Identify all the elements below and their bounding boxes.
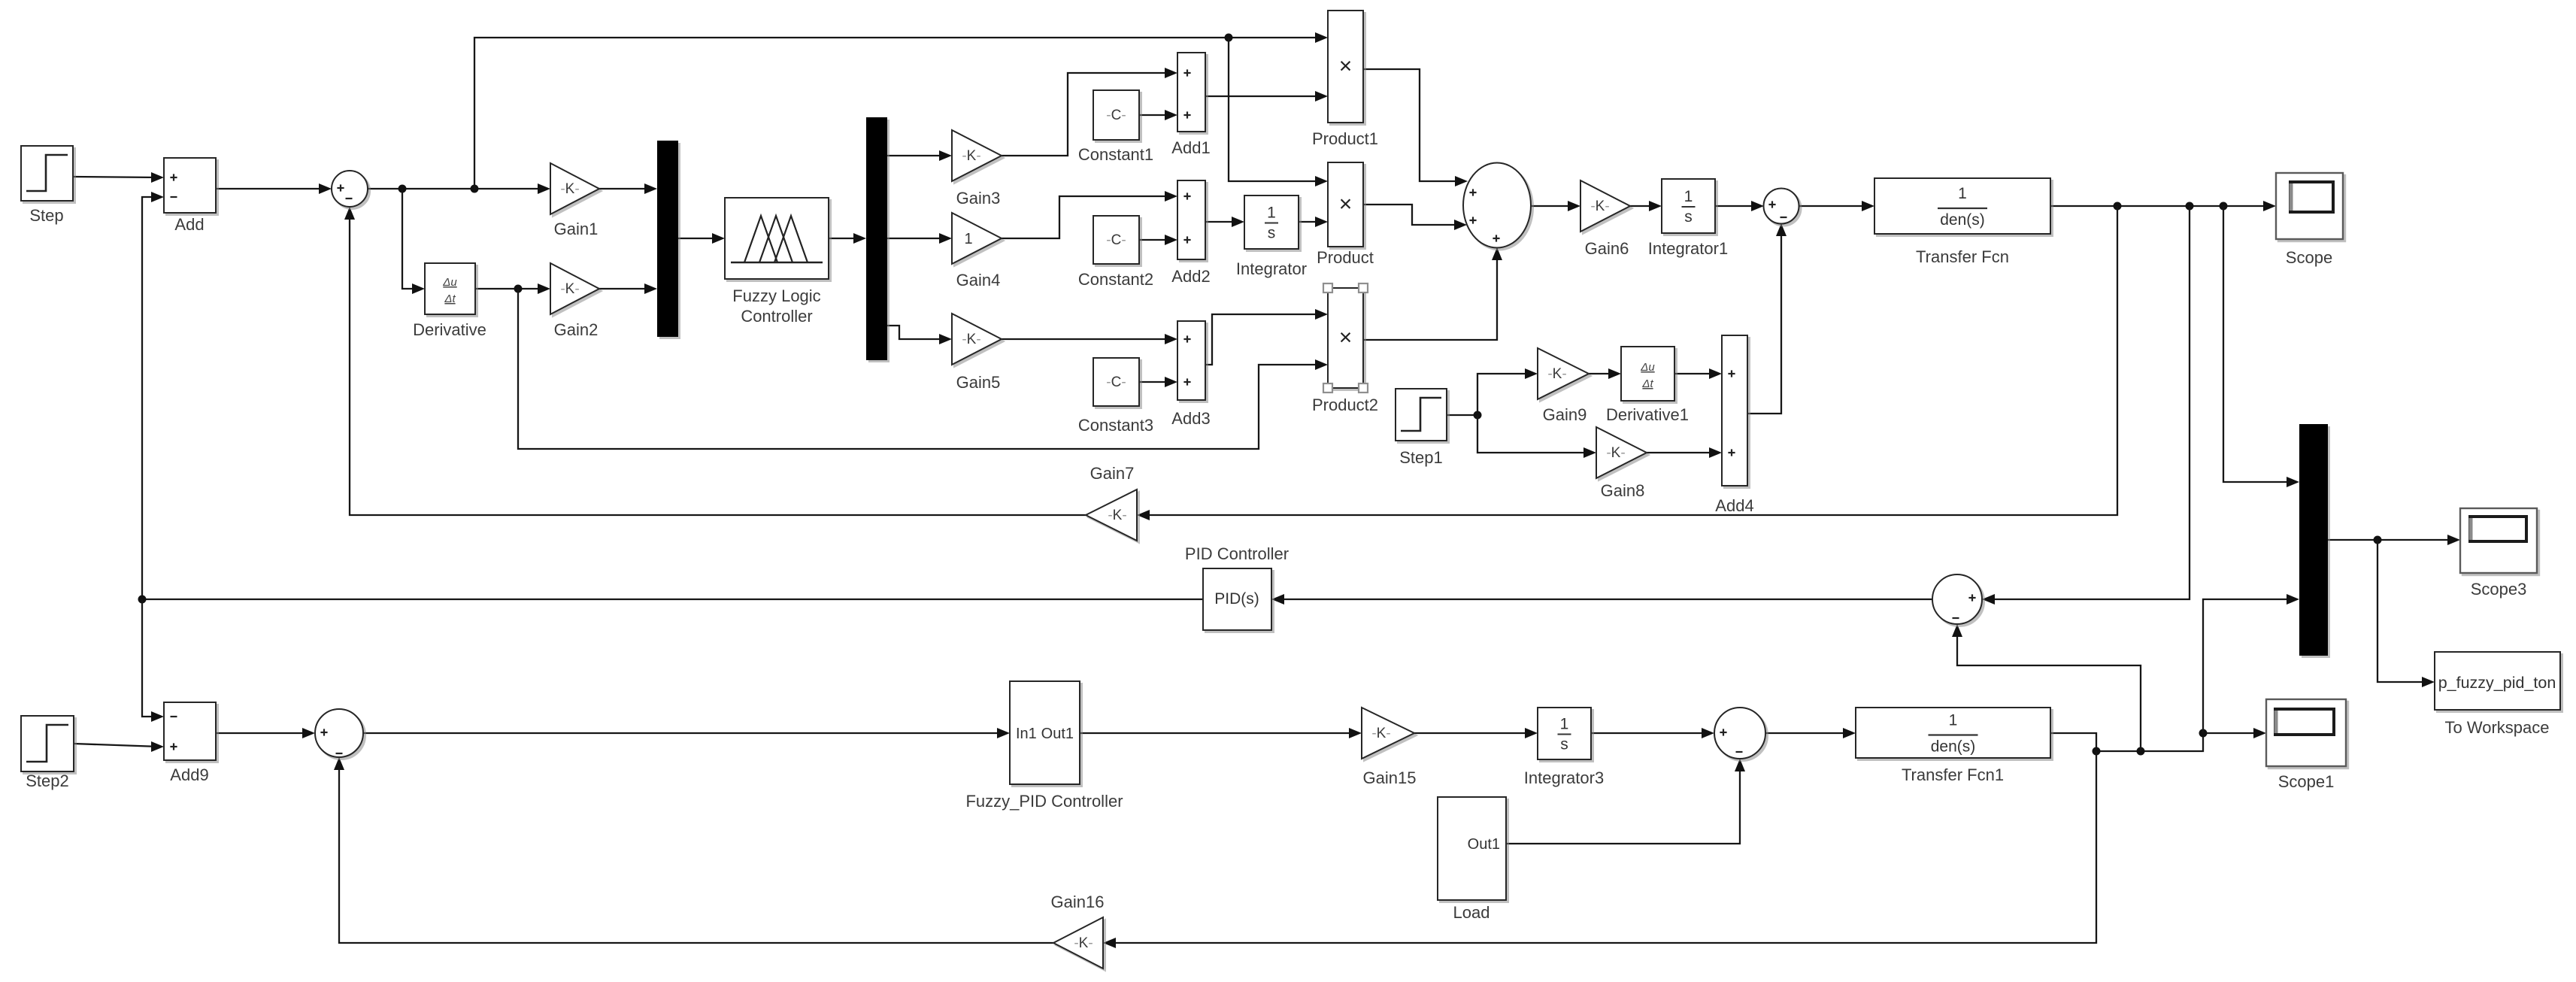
svg-text:Add4: Add4 xyxy=(1715,496,1753,515)
constant block Constant2 xyxy=(1078,216,1153,289)
integrator block Integrator xyxy=(1236,195,1307,278)
svg-text:s: s xyxy=(1560,736,1568,753)
svg-text:×: × xyxy=(1339,192,1353,217)
svg-text:Scope3: Scope3 xyxy=(2471,580,2527,599)
wire node to Product top xyxy=(1229,38,1328,186)
wire Sum5 to Transfer Fcn1 xyxy=(1765,728,1856,738)
svg-text:1: 1 xyxy=(1560,716,1569,733)
svg-text:-C-: -C- xyxy=(1106,374,1126,390)
fuzzy logic controller block xyxy=(725,198,829,326)
wire Sum1 to Gain1 xyxy=(368,183,550,194)
wire Integrator1 to Sum2 xyxy=(1715,201,1764,211)
svg-text:PID(s): PID(s) xyxy=(1214,590,1259,608)
product block Product1 xyxy=(1312,11,1378,148)
wire Derivative to Gain2 xyxy=(475,283,550,294)
svg-text:PID Controller: PID Controller xyxy=(1185,544,1289,563)
wire Constant2 to Add2 xyxy=(1139,235,1177,245)
wire Step to Add xyxy=(73,172,164,183)
scope block Scope1 xyxy=(2266,699,2346,791)
product block Product xyxy=(1317,162,1374,267)
wire Sum4 to Fuzzy_PID Controller xyxy=(363,728,1010,738)
svg-text:Scope: Scope xyxy=(2286,248,2332,267)
svg-text:Scope1: Scope1 xyxy=(2278,772,2335,791)
scope block Scope3 xyxy=(2460,508,2537,599)
subsystem block Load xyxy=(1438,797,1506,922)
gain Gain15 xyxy=(1362,708,1416,787)
svg-text:Out1: Out1 xyxy=(1041,726,1074,742)
wire Integrator to Product xyxy=(1299,217,1328,227)
svg-text:Δt: Δt xyxy=(1641,377,1653,390)
svg-text:-K-: -K- xyxy=(560,181,579,197)
wire PID output to Add minus xyxy=(138,192,1204,604)
source block Step1 xyxy=(1396,389,1447,467)
wire Fuzzy_PID Controller to Gain15 xyxy=(1080,728,1362,738)
wire Sum3 to PID Controller xyxy=(1271,594,1932,605)
svg-text:Step2: Step2 xyxy=(26,771,69,790)
wire Add2 to Integrator xyxy=(1205,217,1244,227)
sum block Add2 xyxy=(1171,180,1210,286)
svg-text:-K-: -K- xyxy=(962,332,980,347)
wire Product2 to Sum ellipse xyxy=(1363,247,1502,340)
integrator block Integrator3 xyxy=(1524,708,1604,787)
integrator block Integrator1 xyxy=(1648,179,1728,258)
svg-text:Product1: Product1 xyxy=(1312,129,1378,148)
svg-text:Integrator3: Integrator3 xyxy=(1524,768,1604,787)
svg-text:1: 1 xyxy=(964,231,972,247)
wire Step1 to Gain9 xyxy=(1447,368,1538,420)
svg-text:-K-: -K- xyxy=(1590,199,1609,214)
wire feedback to Sum3 bottom xyxy=(1952,624,2141,751)
wire Add9 to Sum4 xyxy=(216,728,315,738)
sum block Add1 xyxy=(1171,53,1210,157)
svg-text:-K-: -K- xyxy=(1606,445,1625,461)
wire Add4 to Sum2 bottom xyxy=(1747,223,1787,414)
svg-text:Δu: Δu xyxy=(1640,361,1655,374)
mux bar Mux xyxy=(657,141,678,337)
wire Gain5 to Add3 xyxy=(1002,334,1177,344)
wire Gain6 to Integrator1 xyxy=(1630,201,1662,211)
constant block Constant3 xyxy=(1078,358,1153,435)
svg-text:Gain8: Gain8 xyxy=(1601,481,1645,500)
scope block Scope xyxy=(2276,173,2343,267)
svg-text:Derivative: Derivative xyxy=(413,320,486,339)
wire Sum ellipse to Gain6 xyxy=(1531,201,1580,211)
wire Fuzzy Logic Controller to Demux xyxy=(829,233,866,244)
wire Gain7 to Sum1 bottom xyxy=(344,207,1086,515)
wire Step1 to Gain8 xyxy=(1477,415,1596,458)
wire Add to Sum1 xyxy=(216,183,332,194)
sum junction Sum1 xyxy=(332,171,368,207)
svg-text:Derivative1: Derivative1 xyxy=(1606,405,1689,424)
wire branch to To Workspace xyxy=(2377,540,2435,687)
svg-text:-C-: -C- xyxy=(1106,232,1126,248)
svg-text:Add3: Add3 xyxy=(1171,409,1210,428)
svg-text:-K-: -K- xyxy=(1074,935,1093,951)
gain Gain9 xyxy=(1538,348,1589,424)
svg-text:Constant1: Constant1 xyxy=(1078,145,1153,164)
gain Gain1 xyxy=(550,163,599,238)
svg-text:×: × xyxy=(1339,54,1353,79)
svg-text:Gain6: Gain6 xyxy=(1585,239,1629,258)
svg-text:-K-: -K- xyxy=(560,281,579,297)
wire Gain3 to Add1 xyxy=(1002,68,1177,156)
svg-text:In1: In1 xyxy=(1016,726,1037,742)
wire to Gain16 xyxy=(1103,751,2096,948)
demux bar Demux xyxy=(866,117,887,360)
wire Demux to Gain3 xyxy=(887,150,952,161)
svg-text:Gain1: Gain1 xyxy=(554,220,599,238)
source block Step2 xyxy=(21,716,74,790)
svg-text:-C-: -C- xyxy=(1106,108,1126,123)
wire Constant3 to Add3 xyxy=(1139,377,1177,387)
wire Integrator3 to Sum5 xyxy=(1591,728,1714,738)
wire Load to Sum5 bottom xyxy=(1506,759,1745,844)
gain Gain4 xyxy=(952,213,1002,289)
svg-text:Gain7: Gain7 xyxy=(1090,464,1135,483)
wire branch to Mux1 bottom input xyxy=(2203,594,2299,733)
gain Gain2 xyxy=(550,263,599,339)
gain Gain16 xyxy=(1051,893,1105,968)
svg-text:To Workspace: To Workspace xyxy=(2445,718,2550,737)
svg-text:Add2: Add2 xyxy=(1171,267,1210,286)
wire Gain2 to Mux xyxy=(599,283,657,294)
source block Step xyxy=(21,146,73,225)
sum block Add3 xyxy=(1171,321,1210,428)
wire Mux1 to Scope3 xyxy=(2328,535,2460,545)
svg-text:Gain2: Gain2 xyxy=(554,320,599,339)
svg-text:Transfer Fcn: Transfer Fcn xyxy=(1916,247,2009,266)
transfer function block Transfer Fcn1 xyxy=(1856,708,2050,784)
svg-text:Add: Add xyxy=(174,215,204,234)
sum block Add xyxy=(164,158,216,234)
wire Mux to Fuzzy Logic Controller xyxy=(678,233,725,244)
wire Demux to Gain5 xyxy=(887,326,952,344)
wire Gain15 to Integrator3 xyxy=(1414,728,1538,738)
to workspace block p_fuzzy_pid_ton xyxy=(2435,652,2560,737)
svg-text:Add9: Add9 xyxy=(170,765,208,784)
svg-text:Gain15: Gain15 xyxy=(1363,768,1417,787)
derivative block Derivative xyxy=(413,263,486,339)
sum junction Sum5 xyxy=(1714,708,1765,759)
svg-text:-K-: -K- xyxy=(1547,366,1566,382)
product block Product2 (selected) xyxy=(1312,283,1378,414)
svg-text:Out1: Out1 xyxy=(1468,836,1500,853)
wire Add1 to Product1 xyxy=(1205,91,1328,102)
svg-text:s: s xyxy=(1268,225,1276,242)
wire Gain16 to Sum4 bottom xyxy=(334,757,1053,943)
wire Transfer Fcn to Scope xyxy=(2050,201,2276,211)
wire Gain8 to Add4 xyxy=(1647,447,1722,458)
wire Demux to Gain4 xyxy=(887,233,952,244)
wire de branch to Product2 bottom xyxy=(518,289,1328,449)
wire error to Product1 top (node e) xyxy=(474,32,1328,189)
wire branch to Derivative xyxy=(402,189,425,294)
wire PID output to Add9 minus xyxy=(142,599,164,722)
sum junction Sum2 xyxy=(1764,189,1799,224)
constant block Constant1 xyxy=(1078,90,1153,164)
subsystem block Fuzzy_PID Controller xyxy=(965,681,1123,811)
wire Derivative1 to Add4 xyxy=(1674,368,1722,379)
svg-text:1: 1 xyxy=(1684,188,1693,205)
svg-text:-K-: -K- xyxy=(1108,508,1126,523)
svg-text:Constant3: Constant3 xyxy=(1078,416,1153,435)
svg-text:Step: Step xyxy=(29,206,63,225)
wire branch to Mux1 top input xyxy=(2223,206,2299,487)
svg-text:Gain9: Gain9 xyxy=(1543,405,1587,424)
svg-text:Step1: Step1 xyxy=(1399,448,1443,467)
svg-text:Constant2: Constant2 xyxy=(1078,270,1153,289)
svg-text:Integrator1: Integrator1 xyxy=(1648,239,1728,258)
gain Gain5 xyxy=(952,314,1002,392)
svg-text:Gain16: Gain16 xyxy=(1051,893,1105,911)
svg-text:Gain5: Gain5 xyxy=(956,373,1001,392)
wire Gain4 to Add2 xyxy=(1002,191,1177,238)
derivative block Derivative1 xyxy=(1606,347,1689,424)
mux bar Mux1 xyxy=(2299,424,2328,656)
wire Gain1 to Mux xyxy=(599,183,657,194)
svg-text:Product: Product xyxy=(1317,248,1374,267)
wire Transfer Fcn1 to Scope1 xyxy=(2050,728,2266,756)
svg-text:den(s): den(s) xyxy=(1940,211,1985,229)
wire Product1 to Sum ellipse xyxy=(1363,69,1468,186)
svg-text:-K-: -K- xyxy=(962,148,980,164)
svg-text:1: 1 xyxy=(1267,205,1276,222)
sum block Add9 xyxy=(164,702,216,784)
wire Step2 to Add9 xyxy=(74,741,164,752)
svg-text:Δu: Δu xyxy=(442,276,457,289)
svg-text:Add1: Add1 xyxy=(1171,138,1210,157)
sum junction Sum3 xyxy=(1932,574,1982,624)
svg-text:Integrator: Integrator xyxy=(1236,259,1307,278)
svg-text:-K-: -K- xyxy=(1371,726,1390,741)
wire Constant1 to Add1 xyxy=(1139,110,1177,120)
wire feedback to Gain7 xyxy=(1137,206,2117,520)
wire feedback to Sum3 xyxy=(1982,206,2190,605)
svg-text:p_fuzzy_pid_ton: p_fuzzy_pid_ton xyxy=(2438,674,2556,692)
sum junction Sum4 xyxy=(315,709,363,757)
svg-text:Fuzzy Logic: Fuzzy Logic xyxy=(732,286,820,305)
svg-text:Fuzzy_PID Controller: Fuzzy_PID Controller xyxy=(965,792,1123,811)
sum block Add4 xyxy=(1715,335,1753,515)
svg-text:×: × xyxy=(1339,326,1353,350)
gain Gain7 xyxy=(1086,464,1137,541)
svg-text:Δt: Δt xyxy=(444,292,456,305)
svg-text:Load: Load xyxy=(1453,903,1490,922)
svg-text:Product2: Product2 xyxy=(1312,396,1378,414)
svg-text:1: 1 xyxy=(1949,712,1958,729)
PID controller block xyxy=(1185,544,1289,630)
svg-text:Gain4: Gain4 xyxy=(956,271,1001,289)
svg-text:1: 1 xyxy=(1958,185,1967,202)
svg-text:Controller: Controller xyxy=(741,307,812,326)
gain Gain6 xyxy=(1580,180,1630,258)
wire Add3 to Product2 xyxy=(1205,309,1328,365)
svg-text:s: s xyxy=(1684,208,1693,226)
sum ellipse junction xyxy=(1463,163,1531,248)
wire Product to Sum ellipse xyxy=(1363,205,1467,230)
transfer function block Transfer Fcn xyxy=(1874,178,2050,266)
wire Sum2 to Transfer Fcn xyxy=(1799,201,1874,211)
gain Gain3 xyxy=(952,130,1002,208)
svg-text:Transfer Fcn1: Transfer Fcn1 xyxy=(1902,765,2004,784)
gain Gain8 xyxy=(1596,427,1647,500)
wire Gain9 to Derivative1 xyxy=(1589,368,1621,379)
svg-text:Gain3: Gain3 xyxy=(956,189,1001,208)
svg-text:den(s): den(s) xyxy=(1931,738,1976,756)
